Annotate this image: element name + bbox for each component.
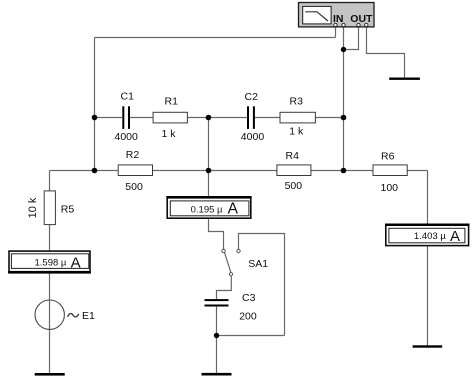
svg-text:R6: R6 bbox=[381, 151, 395, 163]
svg-text:R4: R4 bbox=[286, 150, 300, 162]
svg-text:R5: R5 bbox=[61, 204, 75, 216]
svg-text:A: A bbox=[450, 228, 460, 245]
svg-text:0.195 µ: 0.195 µ bbox=[191, 204, 223, 215]
svg-text:C2: C2 bbox=[245, 91, 259, 103]
svg-text:1.598 µ: 1.598 µ bbox=[35, 257, 67, 268]
svg-text:1.403 µ: 1.403 µ bbox=[414, 231, 446, 242]
svg-text:OUT: OUT bbox=[350, 13, 373, 25]
svg-text:C1: C1 bbox=[121, 91, 135, 103]
svg-text:500: 500 bbox=[125, 181, 143, 193]
svg-text:4000: 4000 bbox=[241, 131, 265, 143]
svg-text:200: 200 bbox=[239, 310, 257, 322]
svg-text:10 k: 10 k bbox=[27, 197, 39, 218]
svg-text:1 k: 1 k bbox=[162, 128, 177, 140]
svg-text:4000: 4000 bbox=[115, 131, 139, 143]
svg-text:R3: R3 bbox=[290, 95, 304, 107]
svg-text:E1: E1 bbox=[82, 310, 95, 322]
svg-text:C3: C3 bbox=[242, 292, 256, 304]
svg-text:1 k: 1 k bbox=[289, 126, 304, 138]
svg-text:500: 500 bbox=[285, 180, 303, 192]
svg-text:A: A bbox=[228, 201, 239, 218]
svg-text:100: 100 bbox=[381, 182, 399, 194]
svg-text:A: A bbox=[71, 254, 81, 271]
svg-text:R1: R1 bbox=[165, 96, 179, 108]
svg-text:SA1: SA1 bbox=[248, 258, 268, 270]
svg-text:R2: R2 bbox=[126, 149, 140, 161]
